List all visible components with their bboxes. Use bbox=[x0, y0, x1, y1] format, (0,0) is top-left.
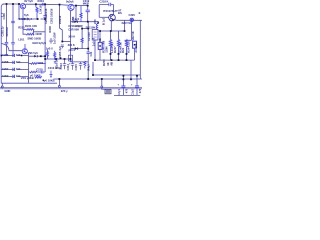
bottom cap C222 x137 bbox=[136, 76, 138, 96]
wire vertical x6.5 bbox=[6, 4, 8, 42]
svg-text:B 1y2: B 1y2 bbox=[101, 17, 105, 25]
relay box bottom bbox=[105, 89, 111, 93]
svg-text:VR2 5K: VR2 5K bbox=[131, 31, 135, 40]
left mid cap row 3 bbox=[1, 69, 28, 71]
wire J2 down bbox=[99, 49, 101, 60]
wire top rail mid bbox=[26, 4, 68, 5]
wire drop x100 to J2 bbox=[99, 31, 101, 42]
wire x131 mid vertical bbox=[130, 60, 132, 79]
svg-text:220Y/1L: 220Y/1L bbox=[122, 21, 133, 25]
svg-text:4y0 10KB: 4y0 10KB bbox=[43, 79, 55, 83]
svg-text:C21: C21 bbox=[89, 51, 93, 56]
terminal circle left bbox=[1, 86, 3, 88]
resistor row y72 bbox=[30, 71, 37, 73]
wire x93 vertical bbox=[92, 62, 94, 75]
svg-text:2Z0 y: 2Z0 y bbox=[61, 89, 68, 93]
resistor row y77.3 bbox=[35, 76, 42, 78]
resistor R243 horizontal bbox=[26, 33, 34, 35]
capacitor on x13 lower bbox=[11, 42, 14, 44]
resistor x81 vertical bbox=[80, 6, 82, 22]
resistor R-a vertical x47.4 bbox=[46, 50, 48, 59]
svg-text:y00 X: y00 X bbox=[68, 48, 75, 52]
wire base Q3 bbox=[99, 16, 109, 18]
svg-text:R2y0 (K): R2y0 (K) bbox=[55, 58, 59, 69]
wire left hook lower bbox=[1, 44, 22, 51]
svg-text:C218 K: C218 K bbox=[99, 0, 108, 3]
wire diode row 2 bbox=[71, 21, 98, 23]
capacitor C205 below bbox=[61, 45, 64, 48]
transistor Q1 bbox=[20, 3, 25, 8]
svg-text:5k: 5k bbox=[96, 21, 100, 24]
wire drop x110.5 bbox=[110, 31, 112, 40]
transistor Q2 exit right bbox=[74, 5, 87, 7]
svg-text:R238: R238 bbox=[48, 26, 52, 33]
connector J3 box bbox=[133, 41, 137, 48]
wire left rail y83.2 bbox=[1, 82, 57, 84]
svg-text:300 K: 300 K bbox=[68, 34, 75, 38]
wire rail y75 bbox=[93, 74, 140, 76]
wire x124.5 vertical bbox=[124, 20, 126, 31]
svg-text:DN4: DN4 bbox=[19, 17, 25, 21]
svg-text:C2y2: C2y2 bbox=[130, 89, 134, 96]
plug terminal circle bbox=[101, 86, 103, 88]
svg-text:C215: C215 bbox=[74, 64, 78, 71]
transistor Q2 bottom down bus x70.5 bbox=[70, 11, 72, 62]
svg-text:C208: C208 bbox=[2, 60, 9, 64]
svg-text:470: 470 bbox=[125, 88, 129, 93]
regulator box SE110N bbox=[92, 30, 98, 41]
svg-text:MKP: MKP bbox=[83, 2, 89, 6]
capacitor glyphs left rows bbox=[13, 54, 15, 78]
svg-text:C220: C220 bbox=[129, 13, 136, 17]
wire SMD net bbox=[24, 44, 26, 48]
wire x131 upper bbox=[125, 22, 132, 41]
connector ticks left bbox=[1, 14, 3, 17]
wire C218 row bbox=[99, 4, 113, 6]
resistor bank x110.5 bbox=[109, 40, 111, 61]
svg-text:GND: GND bbox=[4, 89, 10, 93]
svg-text:C203 220/16: C203 220/16 bbox=[44, 8, 48, 24]
svg-text:110N: 110N bbox=[104, 46, 108, 52]
resistor R-b vertical x54.7 bbox=[54, 51, 56, 60]
resistor bank x126.5 bbox=[125, 40, 127, 61]
svg-text:C203 100/16: C203 100/16 bbox=[50, 8, 54, 24]
svg-text:104: 104 bbox=[16, 67, 21, 71]
transistor Q2 bbox=[68, 4, 74, 10]
svg-text:104: 104 bbox=[16, 60, 21, 64]
wire mid row y59 bbox=[45, 58, 70, 60]
diode D2 bbox=[74, 20, 77, 23]
capacitor glyph below R-b bbox=[54, 62, 56, 63]
svg-text:SE: SE bbox=[98, 38, 102, 42]
svg-text:470: 470 bbox=[138, 88, 142, 93]
svg-text:R247: R247 bbox=[113, 46, 117, 53]
capacitor on top rail x39.5 bbox=[42, 3, 44, 6]
svg-text:1yB X: 1yB X bbox=[46, 47, 53, 50]
capacitor on x88.2 bbox=[87, 52, 90, 54]
fuse box x70.5 bbox=[68, 55, 72, 61]
svg-text:9y5y6: 9y5y6 bbox=[66, 0, 74, 4]
svg-text:C205 4y0: C205 4y0 bbox=[58, 46, 62, 58]
svg-text:BS: BS bbox=[118, 11, 122, 15]
svg-text:C2y1: C2y1 bbox=[117, 89, 121, 96]
wire right bus x140.3 bbox=[139, 20, 141, 79]
capacitor C218 bbox=[109, 3, 111, 6]
wire rail y95.4 bbox=[114, 94, 140, 96]
wire Q3 emitter rail right bbox=[114, 19, 142, 22]
resistor x82.3 vertical bbox=[81, 28, 83, 48]
svg-text:SMD 10KB: SMD 10KB bbox=[27, 37, 41, 41]
resistor row y63.4 bbox=[29, 63, 46, 65]
terminal circle mid bbox=[58, 85, 60, 87]
svg-text:E: E bbox=[139, 11, 141, 15]
wire diode row 4 bbox=[71, 48, 89, 50]
wire vertical x19 bbox=[18, 4, 20, 19]
svg-text:5y6: 5y6 bbox=[24, 13, 29, 17]
svg-text:1K: 1K bbox=[106, 62, 110, 65]
plus marks polarized caps bbox=[69, 62, 133, 87]
capacitor x72.5 drop bbox=[71, 62, 74, 70]
left mid cap row 2 bbox=[1, 62, 28, 64]
electrolytic pad C220 pin bbox=[131, 19, 132, 20]
svg-text:VR1 y0KB: VR1 y0KB bbox=[21, 76, 34, 80]
capacitor x42 row y72 bbox=[41, 71, 43, 74]
capacitor on bus x45.1 bbox=[43, 16, 46, 18]
svg-text:1y0 1/2W: 1y0 1/2W bbox=[53, 32, 57, 44]
wire top rail left bbox=[3, 3, 21, 5]
svg-text:C202 2y: C202 2y bbox=[0, 26, 4, 37]
wire x33.5 resistors join bbox=[34, 29, 46, 34]
svg-text:C200: C200 bbox=[2, 13, 6, 20]
svg-text:C2y6: C2y6 bbox=[71, 16, 75, 23]
svg-text:R250: R250 bbox=[102, 59, 106, 66]
svg-text:ITX107/BAT: ITX107/BAT bbox=[103, 9, 118, 13]
svg-text:R244 220: R244 220 bbox=[127, 41, 131, 53]
wire x113.5 collector drop bbox=[113, 5, 115, 15]
capacitor on x13 upper bbox=[11, 21, 14, 22]
wire J3 down bbox=[134, 48, 136, 60]
diode D3 bbox=[34, 55, 37, 58]
left mid cap row 4 bbox=[1, 76, 28, 78]
svg-text:R234: R234 bbox=[38, 0, 45, 3]
wire left terminal stub bbox=[1, 83, 3, 86]
wire x99.2 vertical bbox=[98, 5, 100, 18]
resistor bank x118.5 bbox=[117, 40, 119, 61]
svg-text:1N6 5y6: 1N6 5y6 bbox=[28, 51, 39, 55]
svg-text:390 K: 390 K bbox=[68, 43, 75, 47]
diode D1 bbox=[24, 18, 27, 21]
wire vertical x59.5 bbox=[60, 5, 63, 42]
junction dots bbox=[1, 3, 138, 81]
svg-text:100: 100 bbox=[16, 53, 21, 57]
svg-text:R24: R24 bbox=[121, 47, 125, 52]
svg-text:220/CH: 220/CH bbox=[5, 27, 9, 36]
wire rail y79 bbox=[54, 78, 143, 80]
svg-text:C2 100: C2 100 bbox=[87, 32, 91, 41]
svg-text:5R6: 5R6 bbox=[38, 61, 43, 65]
capacitor x64.5 drop bbox=[63, 59, 66, 69]
hanging cap x51 bottom bbox=[50, 71, 53, 78]
svg-text:L201: L201 bbox=[18, 38, 25, 42]
svg-text:C206: C206 bbox=[2, 53, 9, 57]
wire bus x28.5 bbox=[28, 53, 30, 83]
ground bus double line bbox=[0, 88, 142, 89]
diode D4 bbox=[75, 47, 78, 50]
left mid cap row 1 bbox=[1, 55, 28, 57]
wire x88.2 vertical bbox=[87, 22, 89, 52]
transistor Q4 bbox=[22, 49, 27, 54]
svg-text:R235: R235 bbox=[18, 25, 25, 29]
connector J2 box bbox=[98, 42, 102, 49]
wire x59.4 drop to terminal bbox=[58, 79, 60, 85]
wire r-net vertical x26.2 bbox=[23, 29, 26, 34]
wire y28.4 stub bbox=[82, 27, 88, 29]
inductor L coil x97.8 bbox=[96, 22, 98, 30]
capacitor C219 bbox=[86, 10, 90, 12]
svg-text:AB: AB bbox=[109, 62, 113, 66]
wire vertical x87.7 upper bbox=[87, 6, 89, 10]
connector J2 pin bbox=[99, 45, 101, 47]
electrolytic pad C220 bbox=[130, 18, 133, 21]
wire bus x45.1 bbox=[44, 4, 46, 72]
svg-text:GH8 9y5y6: GH8 9y5y6 bbox=[32, 41, 46, 45]
text labels horizontal bbox=[2, 0, 141, 93]
svg-text:220/16: 220/16 bbox=[58, 15, 62, 24]
svg-text:C2R 00K: C2R 00K bbox=[68, 28, 79, 32]
vertical text labels bbox=[0, 4, 142, 96]
wire left edge vertical bbox=[1, 4, 4, 83]
wire vertical x13 bbox=[12, 4, 14, 21]
svg-text:C210: C210 bbox=[36, 67, 43, 71]
transistor Q1 collector down bbox=[22, 9, 24, 30]
capacitor on x6.5 bbox=[5, 42, 8, 44]
svg-text:100R: 100R bbox=[35, 32, 41, 36]
wire box bottom down bbox=[94, 40, 96, 60]
wire r241 left bbox=[23, 28, 26, 30]
svg-text:1y0 y5: 1y0 y5 bbox=[91, 37, 95, 46]
svg-text:C218 10y: C218 10y bbox=[68, 24, 80, 28]
resistor 1K5 vertical x37 bbox=[36, 4, 38, 19]
wire diode row 1 bbox=[18, 18, 45, 20]
plug wire to box bbox=[102, 88, 105, 89]
capacitor C203 glyph x51 bbox=[49, 38, 52, 44]
connector J3 pin bbox=[134, 44, 136, 46]
wire rail y31 right bbox=[98, 30, 125, 32]
wire y41.5 to x70 bbox=[62, 41, 70, 43]
transistor Q3 bbox=[109, 14, 116, 21]
svg-text:C209: C209 bbox=[2, 74, 9, 78]
capacitor x80.5 drop bbox=[79, 62, 82, 70]
plug drop x101.8 bbox=[101, 79, 103, 86]
wire rail y61.9 bbox=[71, 61, 89, 63]
resistor x84.8 drop bbox=[84, 61, 86, 68]
svg-text:R4y5: R4y5 bbox=[87, 64, 91, 71]
wire rail y60.1 bbox=[95, 59, 135, 61]
resistor R241 horizontal bbox=[26, 29, 34, 31]
svg-text:AC 250: AC 250 bbox=[134, 43, 138, 53]
bottom cap C221 x123.4 bbox=[122, 76, 124, 96]
svg-text:C213: C213 bbox=[59, 63, 63, 70]
svg-text:5y4: 5y4 bbox=[28, 17, 33, 21]
svg-text:SE110N: SE110N bbox=[86, 26, 96, 30]
svg-text:C207: C207 bbox=[2, 67, 9, 71]
svg-text:R241 10K: R241 10K bbox=[25, 24, 37, 28]
svg-text:1.5K (K): 1.5K (K) bbox=[38, 4, 42, 14]
wire Q3 emitter drop x111.3 bbox=[110, 20, 112, 31]
wire diode row 3 bbox=[29, 55, 46, 57]
svg-text:9V 5y6: 9V 5y6 bbox=[24, 0, 33, 3]
wire vertical x76 bbox=[75, 6, 77, 22]
wire row y72 bbox=[29, 71, 46, 73]
